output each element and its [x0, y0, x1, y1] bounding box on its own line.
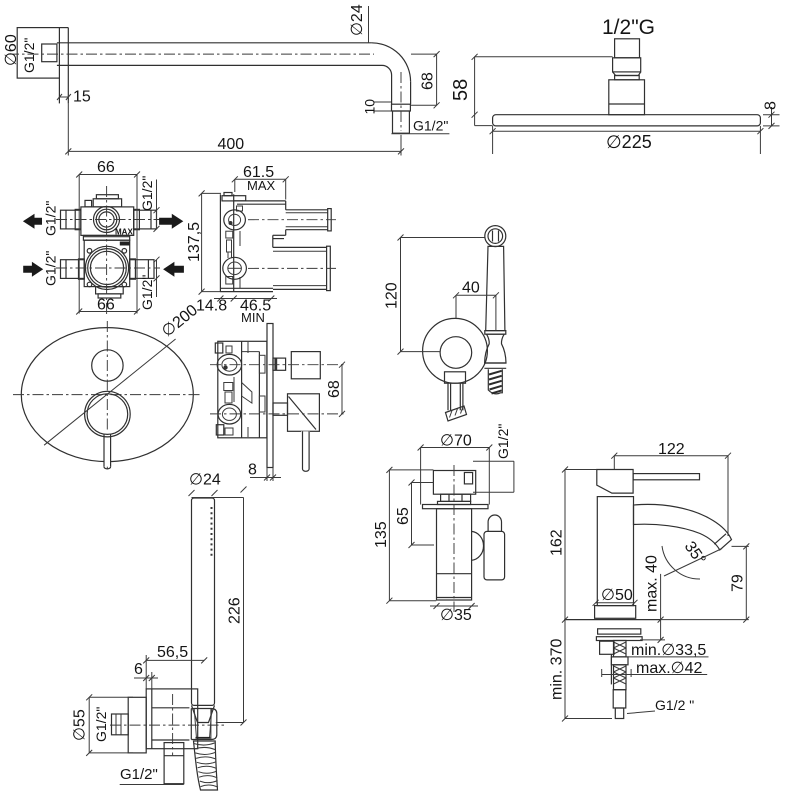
svg-text:G1/2 ": G1/2 "	[655, 697, 694, 713]
svg-text:G1/2": G1/2"	[21, 38, 37, 73]
svg-text:137,5: 137,5	[186, 222, 203, 262]
svg-text:79: 79	[730, 574, 747, 592]
svg-text:G1/2": G1/2"	[120, 766, 158, 783]
svg-text:∅70: ∅70	[440, 433, 472, 450]
svg-text:max. 40: max. 40	[644, 555, 661, 612]
svg-text:∅35: ∅35	[440, 607, 472, 624]
svg-text:G1/2": G1/2"	[43, 201, 59, 236]
svg-text:∅50: ∅50	[601, 587, 633, 604]
svg-text:8: 8	[248, 462, 257, 479]
svg-text:∅225: ∅225	[606, 132, 652, 152]
svg-text:120: 120	[384, 282, 401, 309]
svg-text:162: 162	[549, 529, 566, 556]
svg-text:58: 58	[450, 79, 472, 101]
svg-text:10: 10	[362, 99, 378, 115]
svg-text:G1/2": G1/2"	[413, 117, 448, 133]
svg-text:66: 66	[97, 297, 115, 314]
svg-text:1/2"G: 1/2"G	[602, 16, 655, 39]
svg-text:14.8: 14.8	[196, 298, 227, 315]
svg-text:15: 15	[73, 89, 91, 106]
svg-text:∅60: ∅60	[3, 34, 20, 66]
svg-text:6: 6	[134, 661, 143, 678]
svg-text:226: 226	[227, 597, 244, 624]
svg-text:68: 68	[420, 72, 437, 90]
svg-text:G1/2": G1/2"	[139, 275, 155, 310]
svg-text:∅24: ∅24	[349, 4, 366, 36]
svg-text:8: 8	[763, 101, 780, 110]
svg-text:G1/2": G1/2"	[93, 707, 109, 742]
svg-text:66: 66	[97, 159, 115, 176]
svg-text:∅24: ∅24	[189, 472, 221, 489]
svg-text:min. 370: min. 370	[549, 639, 566, 700]
svg-text:MAX: MAX	[247, 178, 276, 193]
svg-text:MIN: MIN	[241, 310, 265, 325]
svg-text:G1/2": G1/2"	[139, 176, 155, 211]
svg-text:65: 65	[395, 507, 412, 525]
svg-text:MAX: MAX	[115, 228, 133, 237]
svg-text:G1/2": G1/2"	[495, 424, 511, 459]
svg-text:∅55: ∅55	[72, 709, 89, 741]
svg-text:56,5: 56,5	[157, 644, 188, 661]
svg-text:135: 135	[373, 521, 390, 548]
svg-text:G1/2": G1/2"	[43, 251, 59, 286]
svg-text:40: 40	[462, 280, 480, 297]
svg-text:68: 68	[326, 380, 343, 398]
svg-text:400: 400	[218, 136, 245, 153]
